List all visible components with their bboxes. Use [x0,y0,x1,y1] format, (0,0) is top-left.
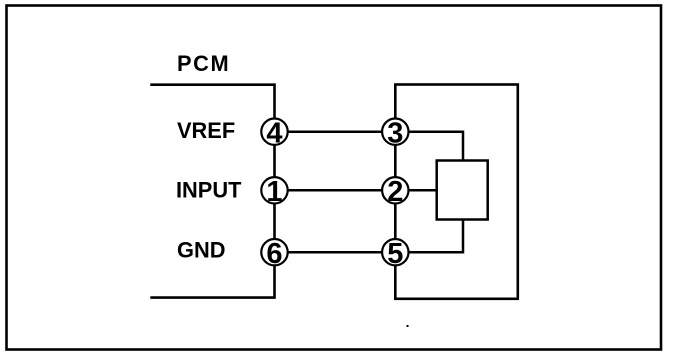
wire pin 3 to sensing element top [395,132,463,161]
svg-text:1: 1 [266,176,282,208]
wire VREF: pin 4 to pin 3 [275,130,396,133]
sensing element box [437,161,488,220]
pin 5 [382,238,408,270]
svg-text:6: 6 [266,238,282,270]
pin 6 [261,238,287,270]
wire GND: pin 6 to pin 5 [275,251,396,254]
svg-text:GND: GND [177,238,225,263]
PCM connector outline [150,85,274,298]
svg-text:3: 3 [387,117,403,149]
wire pin 5 to sensing element bottom [395,220,463,253]
pin 3 [382,117,408,149]
sensor connector outline [395,85,518,299]
svg-text:5: 5 [387,238,403,270]
svg-text:4: 4 [266,117,282,149]
svg-text:PCM: PCM [177,51,230,76]
svg-text:VREF: VREF [177,118,235,143]
svg-text:2: 2 [387,176,403,208]
wire pin 2 to sensing element left [395,189,437,192]
pin 4 [261,117,287,149]
wire INPUT: pin 1 to pin 2 [275,189,396,192]
pin 2 [382,176,408,208]
svg-text:INPUT: INPUT [176,178,242,203]
pin 1 [261,176,287,208]
